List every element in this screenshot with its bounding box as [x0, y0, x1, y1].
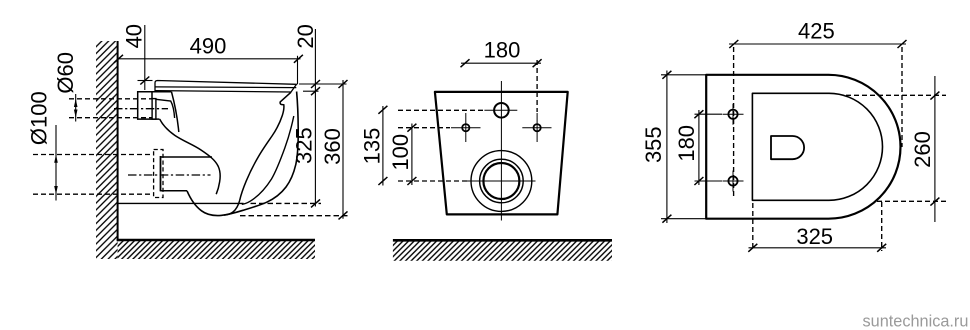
svg-text:490: 490: [190, 34, 227, 59]
dashed extension 360 bottom: [240, 215, 349, 217]
inlet dashed line top: [69, 98, 152, 100]
svg-text:360: 360: [320, 128, 345, 165]
dimension 325 top view: [748, 202, 886, 252]
svg-text:425: 425: [798, 19, 835, 44]
dimension 260: [846, 76, 946, 222]
outlet crosshair horizontal: [467, 180, 536, 182]
outlet pipe bottom line: [160, 190, 187, 192]
inner seat ring top view: [752, 93, 882, 200]
ceramic platform top behind seat: [138, 91, 172, 93]
floor hatch left view: [118, 241, 315, 259]
outlet dashed line bottom: [33, 193, 154, 195]
left mounting hole front: [462, 124, 469, 131]
bowl funnel left curve: [160, 119, 220, 194]
svg-text:355: 355: [641, 126, 666, 163]
outlet dashed centerline: [128, 174, 211, 176]
floor front view: [393, 239, 612, 242]
inlet spigot box: [138, 92, 160, 119]
svg-text:180: 180: [484, 38, 521, 63]
dimension 180 top view: [674, 110, 722, 185]
dimension D100: [27, 91, 58, 200]
right mounting hole front: [534, 124, 541, 131]
dashed extension 180 front: [536, 60, 538, 112]
dashed ref outlet: [398, 180, 469, 182]
dashed ref inlet: [398, 109, 483, 111]
bowl funnel right curve (zigzag under seat): [224, 92, 291, 215]
dashed hole axis top view: [733, 47, 735, 199]
svg-text:325: 325: [291, 127, 316, 164]
wall hatch: [96, 41, 118, 259]
outlet pipe end vertical: [160, 156, 162, 191]
svg-text:20: 20: [293, 24, 318, 48]
dimension 355: [641, 71, 708, 224]
dimension 490: [114, 34, 303, 85]
dimension 360: [320, 80, 347, 219]
outlet circles front: [471, 151, 532, 212]
dashed extension 325 bottom: [251, 202, 322, 204]
flush opening small D: [771, 136, 804, 159]
dimension 135: [359, 106, 387, 186]
ceramic bottom back line: [118, 202, 244, 204]
bottom hole top view: [728, 176, 737, 185]
vertical centerline front: [500, 81, 502, 221]
flush channel inner line (diag B): [156, 99, 175, 118]
floor top line left view: [117, 239, 315, 242]
dimension 425: [729, 19, 907, 147]
svg-text:Ø60: Ø60: [53, 52, 78, 94]
outlet pipe top line: [160, 156, 212, 158]
sump right inner curve: [242, 116, 294, 204]
seat mid line: [155, 86, 296, 89]
svg-text:100: 100: [388, 134, 413, 171]
inlet gasket: [152, 99, 156, 120]
inlet dashed line bottom: [69, 117, 152, 119]
seat and lid: [155, 81, 297, 93]
svg-text:suntechnica.ru: suntechnica.ru: [863, 312, 969, 330]
dimension D60: [53, 52, 78, 121]
svg-text:180: 180: [674, 125, 699, 162]
wall face line: [117, 41, 119, 240]
dimension 180 front: [461, 38, 542, 67]
dashed ref holes: [398, 127, 450, 129]
dimension 20 and 325 shared line: [291, 24, 346, 207]
svg-text:40: 40: [122, 24, 147, 48]
inlet dashed centerline: [114, 108, 168, 110]
ceramic back outer curve (diag A): [172, 92, 179, 132]
dimension 100: [388, 124, 417, 186]
inlet crosshair horizontal: [484, 109, 517, 111]
outer rim top view: [706, 75, 900, 219]
outlet dashed line top: [33, 154, 154, 156]
outer front and underside profile: [187, 92, 298, 216]
svg-text:325: 325: [796, 224, 833, 249]
outlet flange dashed box: [154, 150, 163, 198]
dimension 40: [122, 24, 153, 90]
top hole top view: [728, 110, 737, 119]
inlet circle front: [494, 103, 509, 118]
svg-text:Ø100: Ø100: [27, 91, 52, 145]
svg-text:260: 260: [910, 131, 935, 168]
trapezoid body: [435, 92, 568, 214]
svg-text:135: 135: [359, 128, 384, 165]
